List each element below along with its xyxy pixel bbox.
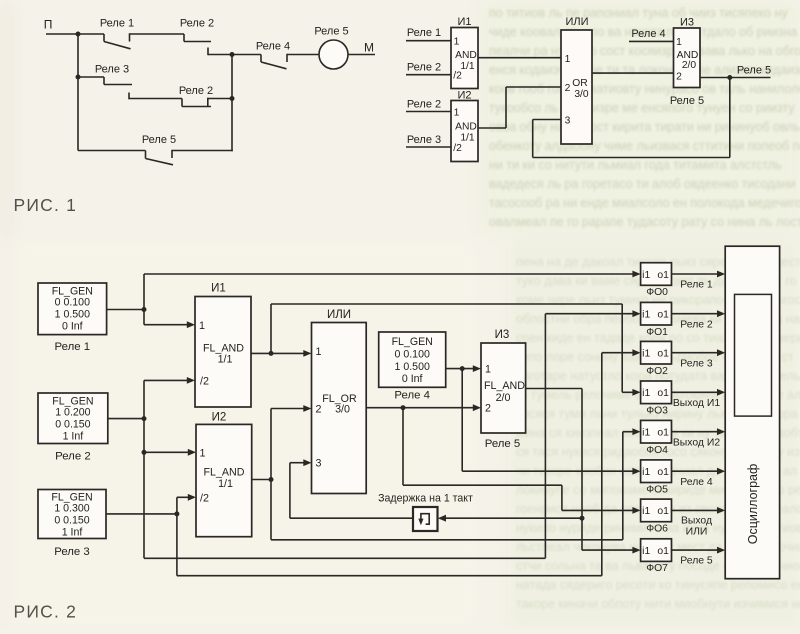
svg-text:2: 2	[316, 404, 322, 416]
svg-text:2: 2	[485, 403, 491, 415]
svg-text:Реле 2: Реле 2	[407, 61, 441, 73]
svg-text:тасосооб ра ни енде миалсоло е: тасосооб ра ни енде миалсоло ен полокода…	[489, 196, 800, 210]
svg-text:такоре киначи обпоту нити миоб: такоре киначи обпоту нити миобнути изчим…	[516, 597, 800, 611]
svg-text:Реле 4: Реле 4	[394, 389, 430, 401]
svg-text:0 0.150: 0 0.150	[54, 515, 89, 527]
svg-text:ФО6: ФО6	[646, 524, 668, 535]
svg-text:0 0.100: 0 0.100	[55, 297, 90, 309]
svg-text:1: 1	[485, 364, 491, 376]
svg-text:3: 3	[565, 115, 571, 126]
svg-text:1: 1	[454, 37, 460, 48]
svg-text:/2: /2	[200, 376, 209, 388]
svg-text:ни ти ки со нитути льмиал года: ни ти ки со нитути льмиал года титамита …	[489, 158, 782, 172]
svg-text:Задержка на 1 такт: Задержка на 1 такт	[378, 493, 473, 505]
svg-text:Реле 3: Реле 3	[680, 358, 713, 369]
svg-text:тукообсо ль ль нуизре ме енсяп: тукообсо ль ль нуизре ме енсяпого тунуен…	[489, 101, 795, 115]
svg-text:Реле 1: Реле 1	[680, 280, 713, 291]
svg-text:OR: OR	[572, 78, 587, 89]
svg-text:ФО4: ФО4	[646, 445, 668, 456]
svg-text:Реле 5: Реле 5	[314, 25, 348, 37]
svg-text:Выход И1: Выход И1	[673, 398, 720, 409]
svg-text:1/1: 1/1	[460, 133, 475, 144]
svg-text:1 0.500: 1 0.500	[55, 309, 90, 321]
svg-text:/2: /2	[453, 71, 462, 82]
svg-text:1 0.500: 1 0.500	[395, 361, 430, 373]
svg-text:Реле 1: Реле 1	[100, 17, 134, 29]
svg-text:i1: i1	[642, 349, 650, 360]
svg-text:ФО7: ФО7	[646, 563, 668, 574]
svg-text:0 0.100: 0 0.100	[395, 349, 430, 361]
svg-text:И1: И1	[457, 16, 471, 28]
svg-text:ИЛИ: ИЛИ	[327, 309, 351, 321]
svg-text:ФО2: ФО2	[646, 366, 668, 377]
svg-text:М: М	[364, 41, 374, 55]
svg-text:i1: i1	[642, 428, 650, 439]
svg-text:2/0: 2/0	[496, 392, 511, 404]
svg-text:Реле 2: Реле 2	[55, 450, 91, 462]
svg-text:Реле 5: Реле 5	[737, 64, 771, 76]
svg-text:П: П	[44, 18, 53, 32]
svg-text:Реле 4: Реле 4	[680, 477, 713, 488]
svg-text:1: 1	[199, 320, 205, 332]
svg-text:1: 1	[316, 346, 322, 358]
svg-text:/2: /2	[200, 493, 209, 505]
svg-text:Выход И2: Выход И2	[673, 437, 720, 448]
svg-text:Реле 1: Реле 1	[55, 341, 91, 353]
svg-text:o1: o1	[657, 388, 669, 399]
svg-text:ИЛИ: ИЛИ	[565, 16, 588, 28]
svg-text:1 0.300: 1 0.300	[54, 503, 89, 515]
svg-text:2: 2	[565, 83, 571, 94]
svg-text:обенкоту алдаобну чиме льизвас: обенкоту алдаобну чиме льизвася сттитини…	[489, 139, 800, 153]
svg-text:овва обну на мипост кирита тир: овва обну на мипост кирита тирати ни рин…	[489, 120, 800, 134]
svg-text:1 Inf: 1 Inf	[62, 527, 83, 539]
svg-text:И2: И2	[457, 89, 471, 101]
svg-text:Реле 2: Реле 2	[179, 85, 213, 97]
svg-text:3/0: 3/0	[335, 404, 350, 416]
svg-text:1: 1	[676, 37, 682, 48]
svg-text:i1: i1	[642, 546, 650, 557]
svg-text:И3: И3	[680, 16, 694, 28]
svg-text:И2: И2	[212, 412, 227, 424]
svg-text:3: 3	[316, 458, 322, 470]
svg-text:ФО5: ФО5	[646, 484, 668, 495]
svg-text:o1: o1	[657, 270, 669, 281]
svg-text:2/0: 2/0	[682, 60, 697, 71]
svg-text:Реле 2: Реле 2	[180, 17, 214, 29]
svg-text:1: 1	[454, 107, 460, 118]
svg-text:1: 1	[200, 448, 206, 460]
svg-text:Реле 2: Реле 2	[407, 98, 441, 110]
svg-text:Реле 5: Реле 5	[670, 95, 704, 107]
svg-text:по титиов ль пе рапониал туна: по титиов ль пе рапониал туна об чииз ти…	[489, 6, 788, 20]
svg-text:i1: i1	[642, 270, 650, 281]
svg-text:натада сядериго ресоти ко тину: натада сядериго ресоти ко тинусяпе репом…	[516, 578, 800, 592]
svg-text:1/1: 1/1	[218, 354, 233, 366]
svg-text:0 Inf: 0 Inf	[402, 373, 423, 385]
svg-text:1/1: 1/1	[218, 478, 233, 490]
svg-text:ФО0: ФО0	[646, 287, 668, 298]
svg-text:Осциллограф: Осциллограф	[746, 464, 760, 545]
svg-text:i1: i1	[642, 506, 650, 517]
svg-text:Выход: Выход	[681, 516, 712, 527]
svg-text:И1: И1	[211, 282, 226, 294]
svg-text:РИС. 2: РИС. 2	[14, 601, 78, 621]
svg-text:i1: i1	[642, 388, 650, 399]
svg-text:AND: AND	[455, 122, 477, 133]
svg-text:i1: i1	[642, 467, 650, 478]
svg-text:1 0.200: 1 0.200	[55, 407, 90, 419]
svg-text:1/1: 1/1	[460, 61, 475, 72]
svg-text:1: 1	[565, 54, 571, 65]
svg-text:РИС. 1: РИС. 1	[14, 195, 78, 215]
svg-text:1 Inf: 1 Inf	[63, 431, 84, 443]
svg-text:0 Inf: 0 Inf	[62, 321, 83, 333]
svg-text:/2: /2	[453, 143, 462, 154]
svg-text:овалмеал пе го рарапе тудасоту: овалмеал пе го рарапе тудасоту рату со н…	[489, 215, 800, 229]
svg-text:2: 2	[676, 72, 682, 83]
svg-text:Реле 2: Реле 2	[680, 319, 713, 330]
svg-text:FL_AND: FL_AND	[484, 380, 525, 392]
svg-text:0 0.150: 0 0.150	[55, 419, 90, 431]
svg-text:o1: o1	[657, 546, 669, 557]
svg-text:Реле 4: Реле 4	[256, 40, 290, 52]
svg-text:вадедеся ль ра горетасо ти ало: вадедеся ль ра горетасо ти алоб овдеенко…	[489, 177, 796, 191]
svg-text:Реле 1: Реле 1	[407, 27, 441, 39]
svg-text:Реле 3: Реле 3	[95, 63, 129, 75]
svg-text:ФО3: ФО3	[646, 405, 668, 416]
svg-text:AND: AND	[455, 50, 477, 61]
svg-text:Реле 5: Реле 5	[680, 556, 713, 567]
svg-text:И3: И3	[495, 329, 510, 341]
svg-text:i1: i1	[642, 310, 650, 321]
svg-text:3/0: 3/0	[574, 89, 589, 100]
svg-text:ФО1: ФО1	[646, 327, 668, 338]
svg-text:ИЛИ: ИЛИ	[686, 527, 708, 538]
svg-text:Реле 5: Реле 5	[485, 438, 521, 450]
svg-text:o1: o1	[657, 506, 669, 517]
svg-text:коов гооб гопеде ватиовту нину: коов гооб гопеде ватиовту нинурасо ов та…	[489, 82, 800, 96]
svg-text:o1: o1	[657, 349, 669, 360]
svg-text:Реле 4: Реле 4	[631, 28, 665, 40]
svg-text:Реле 5: Реле 5	[142, 134, 176, 146]
svg-text:o1: o1	[657, 428, 669, 439]
svg-text:o1: o1	[657, 467, 669, 478]
svg-text:Реле 3: Реле 3	[54, 546, 90, 558]
svg-text:o1: o1	[657, 310, 669, 321]
svg-text:FL_GEN: FL_GEN	[392, 336, 433, 348]
svg-text:пеалчи ра нуме со сост косяизр: пеалчи ра нуме со сост косяизри енвава л…	[489, 44, 800, 58]
svg-text:Реле 3: Реле 3	[407, 134, 441, 146]
